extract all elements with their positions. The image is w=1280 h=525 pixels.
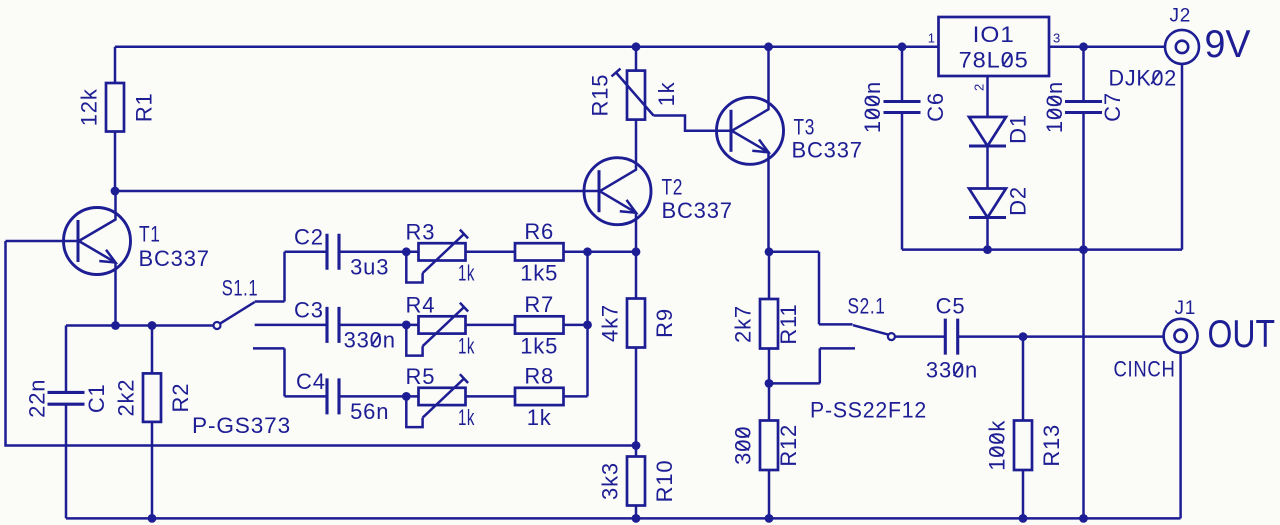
resistor R1 <box>114 47 117 191</box>
svg-text:100n: 100n <box>1042 81 1067 133</box>
switch S2.1 top throw <box>769 252 853 325</box>
wire row1 left <box>285 251 328 254</box>
switch S1.1 bottom throw <box>253 348 285 396</box>
svg-text:1k5: 1k5 <box>520 333 558 358</box>
junction R10/gnd <box>632 514 641 523</box>
switch S2.1 blade <box>853 325 888 334</box>
junction R2 top <box>148 321 157 330</box>
junction R15/top rail <box>632 42 641 51</box>
value 100n (C6) <box>860 81 885 133</box>
svg-text:2: 2 <box>972 84 987 91</box>
junction T3 emitter node <box>765 247 774 256</box>
switch S2.1 bottom throw <box>769 348 855 383</box>
wire ground rail <box>66 517 1181 520</box>
junction D2/gnd bus <box>983 245 992 254</box>
junction R2/gnd <box>148 514 157 523</box>
svg-text:P-GS373: P-GS373 <box>192 413 291 438</box>
connector J2 (9V input) <box>1084 30 1200 250</box>
resistor R10 <box>635 506 638 519</box>
svg-text:1k: 1k <box>458 260 475 285</box>
svg-text:J1: J1 <box>1175 298 1197 319</box>
IC IO1 78L05 <box>939 17 1050 76</box>
switch S1.1 top throw <box>255 252 285 302</box>
svg-text:C5: C5 <box>936 294 966 319</box>
junction row2/join <box>583 321 592 330</box>
svg-text:22n: 22n <box>25 379 50 418</box>
svg-text:OUT: OUT <box>1208 313 1276 356</box>
value 100n (C7) <box>1042 81 1067 133</box>
capacitor C6 <box>901 47 904 250</box>
junction T3/top rail <box>764 42 773 51</box>
svg-text:P-SS22F12: P-SS22F12 <box>810 398 927 423</box>
svg-text:J2: J2 <box>1170 6 1192 27</box>
svg-text:C6: C6 <box>923 92 948 122</box>
capacitor C7 <box>1082 47 1085 519</box>
svg-text:C7: C7 <box>1100 92 1125 122</box>
svg-text:100n: 100n <box>860 81 885 133</box>
trimmer R4 <box>406 303 515 356</box>
svg-text:R1: R1 <box>132 92 157 122</box>
svg-text:C4: C4 <box>296 369 326 394</box>
svg-text:2k2: 2k2 <box>114 379 139 417</box>
svg-text:IO1: IO1 <box>973 22 1015 47</box>
svg-text:R9: R9 <box>652 308 677 338</box>
svg-text:1k: 1k <box>527 405 552 430</box>
resistor R11 <box>768 252 771 384</box>
wire IO1 pin2 <box>986 76 989 117</box>
junction C7/J2 sleeve/gnd bus <box>1079 245 1088 254</box>
resistor R2 <box>151 326 154 519</box>
value 300 (R12) <box>731 426 756 465</box>
capacitor C2 <box>327 234 339 270</box>
svg-text:S2.1: S2.1 <box>848 294 886 319</box>
svg-text:D1: D1 <box>1006 114 1031 144</box>
wire row3 left <box>285 395 328 398</box>
svg-text:R2: R2 <box>168 383 193 413</box>
wire base row node <box>115 190 599 193</box>
wire C5 to J1 <box>958 335 1164 338</box>
diode D2 <box>969 189 1006 250</box>
svg-text:4k7: 4k7 <box>598 304 623 342</box>
connector J1 (output) <box>1164 319 1198 519</box>
junction R9/R10/feedback <box>632 441 641 450</box>
junction C5/R13 <box>1019 332 1028 341</box>
resistor R7 <box>515 316 564 333</box>
value 100k (R13) <box>985 420 1010 471</box>
switch S1.1 blade <box>220 302 254 323</box>
svg-text:T3: T3 <box>794 114 816 139</box>
junction C4/R5 <box>402 392 411 401</box>
wire row1 right <box>564 251 637 254</box>
junction C3/R4 <box>402 321 411 330</box>
svg-text:1k: 1k <box>458 333 475 358</box>
svg-text:R13: R13 <box>1039 424 1064 467</box>
capacitor C3 <box>327 307 339 343</box>
svg-text:DJK02: DJK02 <box>1109 66 1178 91</box>
svg-text:330n: 330n <box>344 327 396 352</box>
svg-text:R5: R5 <box>406 364 436 389</box>
wire node row (T1 emitter net) <box>66 324 214 327</box>
junction R11/R12/S2 <box>765 379 774 388</box>
capacitor C5 <box>895 335 945 338</box>
junction row1/join <box>583 247 592 256</box>
capacitor C1 <box>65 326 68 519</box>
junction R12/gnd <box>765 514 774 523</box>
junction T1 emitter <box>111 321 120 330</box>
svg-text:BC337: BC337 <box>662 198 733 223</box>
svg-text:C1: C1 <box>84 383 109 413</box>
switch S2.1 pole <box>888 333 895 340</box>
svg-text:R7: R7 <box>524 292 554 317</box>
capacitor C4 <box>327 378 339 414</box>
svg-text:100k: 100k <box>985 420 1010 471</box>
svg-text:330n: 330n <box>926 357 978 382</box>
resistor R8 <box>515 388 564 405</box>
diode D1 <box>969 117 1006 189</box>
svg-text:R11: R11 <box>776 303 801 344</box>
resistor R12 <box>768 383 771 518</box>
svg-text:BC337: BC337 <box>139 246 210 271</box>
svg-text:C2: C2 <box>294 224 324 249</box>
svg-text:R8: R8 <box>524 363 554 388</box>
junction row1/T2 emitter <box>632 247 641 256</box>
trimmer R5 <box>406 374 515 427</box>
junction R1/T1/T2 <box>111 187 120 196</box>
wire top rail right (9V net to J2) <box>1049 46 1165 49</box>
wire row2 left (S1.1 middle throw) <box>255 324 327 327</box>
svg-text:R12: R12 <box>776 424 801 467</box>
svg-text:1k5: 1k5 <box>520 260 558 285</box>
svg-text:78L05: 78L05 <box>959 48 1029 73</box>
svg-text:9V: 9V <box>1205 23 1251 66</box>
svg-text:R15: R15 <box>588 74 613 117</box>
svg-text:3u3: 3u3 <box>350 254 389 279</box>
wire <box>339 324 406 327</box>
wire <box>339 395 406 398</box>
svg-text:1k: 1k <box>458 405 475 430</box>
wire row3 right joining vertical <box>564 252 588 397</box>
junction R13/gnd <box>1019 514 1028 523</box>
wire feedback from T1 base to R9/R10 node <box>6 241 637 446</box>
transistor T1 <box>6 191 131 326</box>
switch S1.1 pole <box>214 322 221 329</box>
resistor R9 <box>635 252 638 457</box>
resistor R6 <box>515 243 564 260</box>
wire ground bus (C6/D2/C7) <box>902 248 1084 251</box>
svg-text:56n: 56n <box>350 399 389 424</box>
svg-text:R10: R10 <box>652 460 677 503</box>
svg-text:T1: T1 <box>139 222 161 247</box>
svg-text:3: 3 <box>1053 31 1060 46</box>
transistor T3 <box>717 47 784 252</box>
svg-text:R6: R6 <box>524 219 554 244</box>
svg-text:D2: D2 <box>1006 186 1031 216</box>
transistor T2 <box>584 120 651 252</box>
svg-text:BC337: BC337 <box>792 137 863 162</box>
svg-text:3k3: 3k3 <box>598 462 623 500</box>
junction C6/top rail <box>898 42 907 51</box>
junction C2/R3 <box>402 247 411 256</box>
svg-text:1k: 1k <box>654 81 679 106</box>
svg-text:1: 1 <box>928 31 935 46</box>
trimmer R3 <box>406 230 515 283</box>
svg-text:CINCH: CINCH <box>1114 356 1176 381</box>
wire row2 right <box>564 324 588 327</box>
wire top rail left (9V net) <box>115 46 939 49</box>
junction C7/top rail <box>1079 42 1088 51</box>
svg-text:12k: 12k <box>77 88 102 126</box>
svg-text:R3: R3 <box>406 219 436 244</box>
resistor R13 <box>1022 337 1025 519</box>
svg-text:C3: C3 <box>294 297 324 322</box>
junction C7/gnd <box>1079 514 1088 523</box>
svg-text:R4: R4 <box>406 292 436 317</box>
svg-text:S1.1: S1.1 <box>222 276 259 301</box>
wire <box>339 251 406 254</box>
svg-text:T2: T2 <box>662 174 684 199</box>
svg-text:2k7: 2k7 <box>731 305 756 343</box>
trimmer R15 <box>612 47 732 131</box>
